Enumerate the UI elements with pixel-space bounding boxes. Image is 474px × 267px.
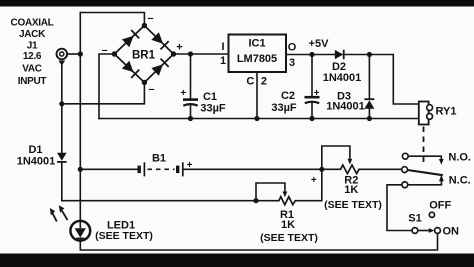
text COAXIAL JACK J1 block [11, 17, 54, 87]
coaxial jack J1 inner [60, 52, 64, 56]
svg-text:C1: C1 [203, 91, 217, 103]
wire top rail from jack line to bridge top [80, 13, 144, 24]
bridge rectifier BR1 outline [114, 26, 173, 83]
svg-text:+: + [311, 175, 317, 186]
svg-text:1: 1 [220, 55, 226, 67]
node R1 wiper [253, 198, 258, 203]
svg-text:+: + [176, 42, 182, 54]
svg-text:C2: C2 [281, 90, 295, 102]
svg-text:N.C.: N.C. [449, 175, 471, 187]
wire +5V rail IC output to D2 [286, 54, 335, 56]
svg-text:(SEE TEXT): (SEE TEXT) [95, 230, 153, 242]
svg-text:1N4001: 1N4001 [326, 101, 365, 113]
node bridge bottom [142, 80, 147, 85]
svg-text:D2: D2 [332, 61, 346, 73]
R2 wiper arrow [348, 146, 353, 165]
wire bridge right lead to IC1 input [176, 53, 229, 55]
node IC common rail [254, 116, 259, 121]
wire jack vertical line (jack center to B1 node to LED) [79, 13, 81, 222]
wire D1 to R1 horizontal [62, 200, 279, 202]
svg-text:IC1: IC1 [248, 38, 265, 50]
IC1 LM7805 box [229, 35, 287, 73]
svg-text:B1: B1 [152, 153, 166, 165]
wire R2 left lead [322, 168, 341, 170]
svg-text:1K: 1K [281, 219, 295, 231]
svg-text:33µF: 33µF [271, 102, 297, 114]
node R1/R2 junction [319, 167, 324, 172]
switch S1 right terminal [435, 228, 441, 234]
top black bar [0, 0, 474, 7]
svg-text:INPUT: INPUT [18, 76, 47, 87]
svg-text:+: + [180, 88, 186, 99]
relay RY1 coil [419, 102, 433, 125]
wire R2 right lead to pole contact [359, 168, 402, 170]
diode D2 [335, 50, 344, 60]
svg-text:RY1: RY1 [436, 105, 457, 117]
capacitor C2 plates [305, 97, 320, 103]
node C2 rail [309, 116, 314, 121]
diode D3 [364, 99, 374, 109]
node bridge right [171, 51, 176, 56]
coaxial jack sleeve triangle [58, 61, 65, 66]
svg-text:(SEE TEXT): (SEE TEXT) [260, 232, 318, 244]
relay mechanical dashed link [423, 127, 425, 167]
svg-text:3: 3 [289, 57, 295, 69]
wire NC contact to S1 [387, 185, 412, 231]
svg-text:33µF: 33µF [200, 102, 226, 114]
switch S1 left terminal [412, 228, 418, 234]
relay armature [407, 170, 442, 175]
svg-text:C: C [246, 76, 254, 88]
svg-text:2: 2 [261, 76, 267, 88]
svg-text:+5V: +5V [309, 38, 330, 50]
svg-text:–: – [101, 45, 107, 57]
text bridge polarity marks [101, 13, 182, 96]
wire R1 wiper loop [256, 183, 285, 201]
NC fixed contact arrow [439, 175, 444, 185]
wire jack sleeve down [61, 64, 63, 104]
svg-text:ON: ON [442, 226, 459, 238]
R1 wiper arrow [283, 183, 288, 197]
coaxial jack J1 outer [57, 49, 68, 60]
svg-text:+: + [314, 88, 320, 99]
svg-text:S1: S1 [408, 213, 421, 225]
node jack tap [78, 51, 83, 56]
LED1 light arrow 2 [59, 205, 68, 220]
node bridge left [112, 51, 117, 56]
contact pole terminal [402, 167, 408, 173]
wire jack tip to vertical [67, 53, 81, 55]
wire D2 cathode to corner and down to relay [344, 55, 419, 105]
LED1 light arrow 1 [50, 208, 57, 222]
svg-text:VAC: VAC [22, 64, 42, 75]
capacitor C1 plates [183, 100, 198, 106]
LED1 diode [75, 221, 86, 241]
svg-text:O: O [288, 42, 297, 54]
svg-text:1K: 1K [344, 184, 358, 196]
svg-text:COAXIAL: COAXIAL [11, 17, 54, 28]
svg-text:–: – [148, 84, 154, 96]
svg-text:N.O.: N.O. [448, 152, 471, 164]
wire D3 branch [368, 55, 370, 119]
wire B1 left lead [80, 168, 137, 170]
svg-text:1N4001: 1N4001 [17, 156, 56, 168]
svg-text:D1: D1 [28, 144, 42, 156]
NO fixed contact arrow [439, 156, 444, 164]
BR1 diode bottom-right [151, 59, 168, 76]
wire R1 right lead up to B1 node [295, 169, 322, 200]
contact NC terminal [402, 182, 408, 188]
node C2 top [309, 52, 314, 57]
BR1 diode top-left [122, 30, 139, 47]
svg-text:BR1: BR1 [132, 50, 156, 62]
wire sleeve line to bridge bottom node [62, 84, 145, 104]
svg-text:J1: J1 [27, 40, 38, 51]
svg-text:OFF: OFF [429, 200, 451, 212]
node sleeve/D1 [59, 101, 64, 106]
wire D1 branch from sleeve node down [61, 104, 63, 201]
svg-text:JACK: JACK [19, 29, 46, 40]
diode D1 [57, 153, 67, 162]
wire C2 branch [311, 55, 313, 119]
svg-text:12.6: 12.6 [23, 51, 42, 62]
svg-text:+: + [187, 160, 193, 171]
node D3 top [367, 52, 372, 57]
resistor R2 zigzag [341, 165, 360, 174]
switch S1 arm arrow [418, 228, 434, 233]
LED1 circle [70, 221, 90, 241]
BR1 diode top-right [151, 32, 168, 49]
svg-text:–: – [147, 13, 153, 25]
wire NC contact lead right [408, 184, 442, 186]
battery B1 [139, 162, 183, 176]
wire C1 branch [190, 54, 192, 119]
node D3 rail [367, 116, 372, 121]
node B1 tap [78, 167, 83, 172]
node bridge top [142, 23, 147, 28]
BR1 diode bottom-left [122, 61, 139, 78]
wire R2 wiper loop [322, 146, 350, 169]
resistor R1 zigzag [279, 197, 296, 205]
switch S1 OFF terminal [429, 212, 434, 217]
svg-text:1N4001: 1N4001 [323, 72, 362, 84]
contact NO terminal [402, 153, 408, 159]
svg-text:(SEE TEXT): (SEE TEXT) [324, 199, 382, 211]
svg-text:LM7805: LM7805 [237, 53, 277, 65]
wire B1 right lead to R2 node [184, 168, 322, 170]
node C1 rail [188, 116, 193, 121]
wire S1 to bottom rail to LED [80, 233, 437, 250]
bottom black bar [0, 254, 474, 267]
wire NO contact lead [408, 155, 441, 157]
wire ground rail [99, 118, 419, 120]
node C1 top [188, 51, 193, 56]
wire bridge left lead and ground down [99, 54, 113, 119]
svg-text:I: I [221, 41, 224, 53]
wire IC1 common pin down to rail [256, 72, 258, 119]
